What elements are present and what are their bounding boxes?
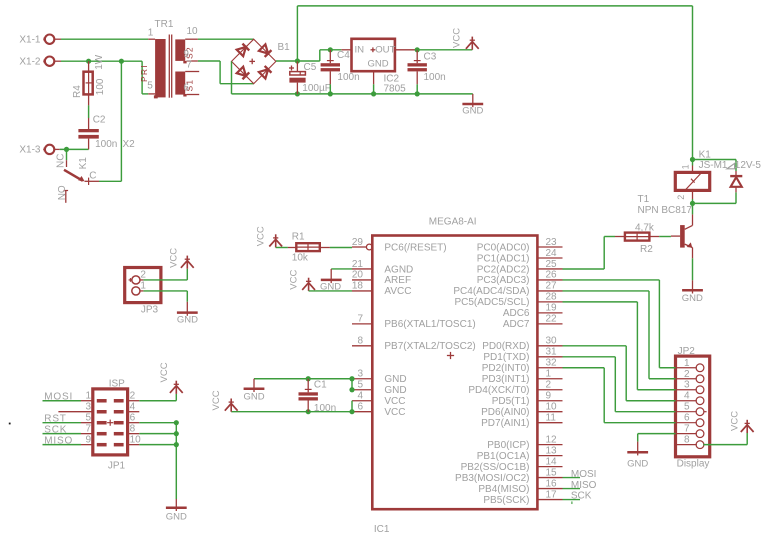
capacitor C2 [78,115,117,151]
svg-text:4: 4 [130,402,136,413]
IC1 pin 24 PC1(ADC1) [477,248,563,265]
JP1 pin 7 stub [81,423,93,434]
svg-text:PD7(AIN1): PD7(AIN1) [481,418,529,429]
pin X1-2 stub [54,60,61,62]
JP1 pin 9 stub [81,434,93,445]
net label MISO wire [43,435,82,446]
svg-text:32: 32 [546,358,558,369]
svg-text:C1: C1 [314,380,327,391]
switch K1 NO pin [57,185,68,203]
svg-text:100n: 100n [314,403,336,414]
svg-text:K1: K1 [699,150,712,161]
svg-text:100n: 100n [424,72,446,83]
sheet origin dot [9,423,11,425]
svg-text:1: 1 [681,164,691,169]
svg-text:NC: NC [55,154,66,168]
JP1 pin 6 stub [128,412,140,423]
svg-text:29: 29 [352,237,364,248]
wire JP1 pin2 to VCC [139,394,176,401]
svg-text:VCC: VCC [384,396,405,407]
svg-text:MEGA8-AI: MEGA8-AI [429,217,477,228]
net label SCK (IC) [563,491,592,504]
svg-text:100n: 100n [95,139,117,150]
svg-text:PB7(XTAL2/TOSC2): PB7(XTAL2/TOSC2) [384,341,475,352]
IC1 pin 8 PB7(XTAL2/TOSC2) [352,336,476,353]
wire X1-2 to TR1 pin5 run [61,61,148,94]
IC1 pin 15 PB3(MOSI/OC2) [455,467,562,484]
JP2 pin 8 [676,435,704,449]
svg-text:VCC: VCC [169,248,180,268]
supply VCC (7805 out) [452,28,479,50]
wire C5 to C4 jog [297,50,341,61]
svg-text:VCC: VCC [159,362,170,382]
wire TR1 pin10 to B1 [198,38,254,40]
svg-text:4: 4 [357,391,363,402]
pin X1-1 stub [54,38,61,40]
wire PD1 to JP2 pin5 [563,357,676,412]
diode D1 top lead [735,171,737,176]
junction pin5 gnd [349,387,354,392]
junction IC2 gnd [371,91,376,96]
capacitor C2 bottom lead [88,139,90,150]
svg-text:GND: GND [384,385,406,396]
svg-text:X1-1: X1-1 [19,34,41,45]
ground GND (T1) [682,280,703,304]
IC1 pin 27 PC4(ADC4/SDA) [453,281,562,298]
svg-text:MISO: MISO [44,435,73,446]
junction JP1 pin6 [174,420,179,425]
IC1 pin 16 PB4(MISO) [478,478,562,495]
regulator IC2 output pin [395,49,417,51]
svg-text:PB3(MOSI/OC2): PB3(MOSI/OC2) [455,473,529,484]
transistor T1 base lead [671,235,680,237]
svg-text:PB0(ICP): PB0(ICP) [487,440,529,451]
svg-text:5: 5 [85,412,91,423]
connector JP1 ISP [93,379,128,472]
svg-text:OUT: OUT [375,44,395,55]
svg-text:GND: GND [243,392,264,403]
TR1 pin 10 [185,26,198,39]
supply VCC (AVCC) [288,270,315,291]
junction C5 bottom [295,91,300,96]
junction relay top [690,157,695,162]
JP3 pin 2 stub [140,279,144,281]
net label MOSI (IC) [563,469,597,480]
svg-text:22: 22 [546,314,558,325]
junction C3 bottom [415,91,420,96]
wire vcc net pins 4-6 [351,401,353,412]
svg-text:1: 1 [140,281,146,292]
svg-text:GND: GND [367,59,388,70]
capacitor C5 bottom lead [296,83,298,94]
svg-text:PB4(MISO): PB4(MISO) [478,484,529,495]
svg-text:AGND: AGND [384,264,413,275]
transformer TR1 primary winding [139,39,166,98]
wire PD2 to JP2 pin6 [563,368,676,423]
IC1 pin 19 ADC6 [503,303,563,320]
capacitor C5 [289,62,330,94]
wire TR1 pin9 to B1 [198,61,254,84]
svg-text:T1: T1 [638,194,650,205]
svg-text:7805: 7805 [384,84,407,95]
TR1 pin 6 [183,83,199,95]
capacitor C1 bottom lead [307,401,309,412]
wire PC5 to JP2 pin3 [563,302,676,390]
svg-text:B1: B1 [278,42,291,53]
transformer TR1 secondary S1 [175,72,194,97]
op IC1 MEGA8 body [372,217,537,535]
svg-text:PD1(TXD): PD1(TXD) [483,352,529,363]
relay K1 coil [675,150,761,191]
svg-text:JP1: JP1 [108,461,126,472]
regulator IC2 gnd pin [373,71,375,84]
junction relay bottom [690,201,695,206]
wire JP1 pin10 to gnd [139,444,176,446]
svg-text:JS-M1: JS-M1 [699,160,728,171]
svg-text:PB1(OC1A): PB1(OC1A) [477,451,530,462]
supply VCC (C1) [211,390,238,411]
svg-text:1: 1 [684,358,690,369]
supply VCC (JP1) [159,362,183,394]
svg-text:6: 6 [684,413,690,424]
IC1 pin 9 PD5(T1) [492,391,563,408]
wire B1 minus to gnd rail [231,61,233,94]
svg-text:PD2(INT0): PD2(INT0) [482,363,530,374]
wire JP2 pin7 to GND [638,434,676,442]
IC1 pin 26 PC3(ADC3) [477,270,563,287]
IC1 pin 4 VCC [352,391,406,408]
resistor R2 [625,222,655,255]
IC1 pin 30 PD0(RXD) [482,336,562,353]
svg-text:C3: C3 [424,52,437,63]
svg-text:2: 2 [546,380,552,391]
svg-text:IC1: IC1 [374,524,390,535]
svg-text:2: 2 [130,391,136,402]
junction C1 top [306,376,311,381]
resistor R1 left lead [288,247,296,249]
svg-text:19: 19 [546,303,558,314]
svg-text:VCC: VCC [384,407,405,418]
svg-text:PC1(ADC1): PC1(ADC1) [477,253,530,264]
capacitor C4 [321,50,360,83]
svg-text:MOSI: MOSI [571,469,597,480]
svg-text:20: 20 [352,270,364,281]
junction JP1 pin10 [174,442,179,447]
resistor R2 left lead [615,236,625,238]
IC1 pin 21 AGND [352,259,413,276]
svg-text:X1-3: X1-3 [19,145,41,156]
IC1 pin 20 AREF [352,270,411,287]
svg-text:SCK: SCK [571,491,592,502]
IC1 pin 11 PD7(AIN1) [481,412,562,429]
connector JP2 Display [676,346,710,470]
svg-text:PB6(XTAL1/TOSC1): PB6(XTAL1/TOSC1) [384,319,475,330]
supply VCC (JP2) [730,411,754,433]
svg-text:PC3(ADC3): PC3(ADC3) [477,275,530,286]
TR1 pin 5 [147,81,155,94]
junction C4 bottom [328,91,333,96]
JP1 pin 8 stub [128,423,140,434]
svg-text:6: 6 [183,83,189,94]
svg-text:MISO: MISO [571,480,597,491]
IC1 pin 32 PD2(INT0) [482,358,563,375]
wire JP3 pin1 to GND [143,291,187,302]
svg-text:C: C [89,171,96,182]
relay value origin glyph [727,163,735,168]
svg-text:1: 1 [546,369,552,380]
svg-text:ADC7: ADC7 [503,319,530,330]
IC1 pin 17 PB5(SCK) [483,489,562,506]
resistor R1 right lead [320,247,330,249]
svg-text:9: 9 [546,391,552,402]
IC1 pin 1 PD3(INT1) [482,369,563,386]
svg-text:NO: NO [57,185,68,200]
svg-text:2: 2 [676,195,686,200]
diode D1 bottom lead [735,187,737,192]
transistor T1 emitter lead [692,248,694,259]
ground GND (AGND) [320,269,342,293]
switch K1 arm [64,157,89,182]
resistor R4 bottom lead [88,94,90,105]
JP1 pin 5 stub [81,412,93,423]
connector JP3 [125,268,161,316]
IC1 pin 22 ADC7 [503,314,563,331]
svg-text:PC5(ADC5/SCL): PC5(ADC5/SCL) [454,297,529,308]
svg-text:12: 12 [546,434,558,445]
net label SCK wire [43,424,82,435]
bridge diode bottom-left [237,67,250,80]
relay K1 coil pin 1 [681,160,693,173]
switch K1 common pin [85,171,99,185]
svg-text:5: 5 [684,402,690,413]
capacitor C1 [299,380,337,414]
bridge diode bottom-right [259,66,272,79]
wire VCC to R1 [276,247,288,249]
capacitor C3 top lead [414,50,421,63]
switch K1 NC pin [55,154,66,168]
resistor R1 [292,231,320,263]
svg-text:PD3(INT1): PD3(INT1) [482,374,530,385]
svg-text:6: 6 [130,412,136,423]
junction pin6 vcc [349,409,354,414]
svg-text:100n: 100n [337,72,359,83]
wire relay to diode top [693,160,737,172]
svg-text:30: 30 [546,336,558,347]
wire PC3 to JP2 pin1 [563,280,676,368]
svg-text:31: 31 [546,347,558,358]
IC1 pin 18 AVCC [352,281,412,298]
svg-text:X2: X2 [123,139,136,150]
connector pad X1-2 [19,56,54,67]
svg-text:8: 8 [684,435,690,446]
svg-text:GND: GND [177,315,198,326]
svg-text:15: 15 [546,467,558,478]
svg-text:PD6(AIN0): PD6(AIN0) [481,407,529,418]
svg-text:VCC: VCC [730,411,741,431]
capacitor C5 top lead [296,61,298,71]
wire JP1 gnd down [175,423,177,499]
svg-text:R1: R1 [292,231,305,242]
svg-text:3: 3 [85,402,91,413]
svg-text:GND: GND [682,293,703,304]
svg-text:10: 10 [130,434,142,445]
regulator IC2 input pin [341,49,351,51]
svg-text:7: 7 [186,60,192,71]
svg-text:NPN BC817: NPN BC817 [638,205,693,216]
JP1 pin 10 stub [128,434,142,445]
JP2 pin 6 [676,413,704,427]
svg-text:100: 100 [95,78,106,95]
junction X1-3/NC [64,147,69,152]
svg-text:16: 16 [546,478,558,489]
svg-text:PC0(ADC0): PC0(ADC0) [477,242,530,253]
svg-text:3: 3 [357,369,363,380]
svg-text:PD0(RXD): PD0(RXD) [482,341,529,352]
svg-text:17: 17 [546,489,558,500]
svg-text:JP2: JP2 [678,346,696,357]
svg-text:VCC: VCC [256,226,267,246]
ground GND (C1) [243,379,264,403]
transformer TR1 core [169,35,171,98]
svg-text:K1: K1 [78,157,89,170]
svg-text:C4: C4 [337,50,350,61]
wire PC4 to JP2 pin2 [563,291,676,379]
JP1 pin 4 stub [128,402,140,413]
wire C3 to gnd rail [416,84,418,94]
wire vcc rail to C1 [231,411,352,413]
transformer TR1 label [155,19,174,30]
IC1 pin 12 PB0(ICP) [487,434,562,451]
resistor R4 top lead [88,61,90,71]
junction C3 top [415,47,420,52]
svg-text:ADC6: ADC6 [503,308,530,319]
net label MISO (IC) [563,480,597,491]
wire JP1 pin8 to gnd [139,433,176,435]
JP3 pin 1 stub [140,290,144,292]
svg-text:C5: C5 [304,62,317,73]
junction C4 top [328,47,333,52]
supply VCC (JP3) [169,248,194,269]
resistor R2 right lead [649,236,659,238]
svg-text:1: 1 [148,27,154,38]
wire gnd net pins 3-5 [351,379,353,390]
svg-text:GND: GND [627,458,648,469]
wire gnd rail to C1 [254,378,352,380]
svg-text:PB5(SCK): PB5(SCK) [483,495,529,506]
svg-text:PC6(/RESET): PC6(/RESET) [384,242,446,253]
svg-text:7: 7 [684,424,690,435]
IC1 pin 6 VCC [352,402,406,419]
JP2 pin 5 [676,402,707,416]
svg-text:JP3: JP3 [141,305,159,316]
IC1 pin 29 PC6(/RESET) [352,237,447,254]
svg-text:5: 5 [357,380,363,391]
wire VCC top run to relay [297,6,692,160]
svg-text:X1-2: X1-2 [19,56,41,67]
svg-text:AVCC: AVCC [384,286,411,297]
junction C5 top [295,58,300,63]
svg-text:PRI: PRI [139,64,149,82]
svg-text:VCC: VCC [288,270,299,290]
svg-text:9: 9 [85,434,91,445]
svg-text:AREF: AREF [384,275,411,286]
svg-text:C2: C2 [93,115,106,126]
ground GND (JP1) [166,499,187,523]
capacitor C2 top lead [88,118,90,129]
svg-text:SCK: SCK [44,424,67,435]
junction C1 bottom [306,409,311,414]
svg-text:23: 23 [546,237,558,248]
TR1 pin 1 [148,27,155,39]
JP2 pin 3 [676,380,704,394]
wire AGND to gnd [331,268,352,270]
svg-text:7: 7 [85,423,91,434]
TR1 pin 7 [185,60,199,72]
transistor T1 collector lead [692,203,694,225]
wire C4 to gnd rail [329,84,331,94]
wire IC2 gnd to rail [373,84,375,94]
JP2 pin 4 [676,391,704,405]
JP2 pin 7 [676,424,704,438]
svg-text:14: 14 [546,456,558,467]
svg-text:24: 24 [546,248,558,259]
resistor R4 [72,54,106,98]
junction X1-2/R4 [86,59,91,64]
switch K1 NC branch wire [66,149,68,160]
wire R4 to C2 [88,105,90,118]
JP2 pin 2 [676,369,704,383]
IC1 pin 5 GND [352,380,407,397]
wire X1-3 to C2 [60,148,89,150]
JP2 pin 1 [676,358,704,372]
svg-text:27: 27 [546,281,558,292]
IC1 pin 7 PB6(XTAL1/TOSC1) [352,314,476,331]
svg-text:GND: GND [384,374,406,385]
IC1 pin 25 PC2(ADC2) [477,259,563,276]
JP1 pin 3 stub [58,402,92,413]
wire B1 plus to C5 [276,60,298,62]
wire JP3 pin2 to VCC [143,269,187,280]
svg-text:1W: 1W [94,54,105,70]
svg-text:PD4(XCK/T0): PD4(XCK/T0) [468,385,529,396]
IC1 pin 23 PC0(ADC0) [477,237,563,254]
TR1 pin 9 [183,49,198,61]
svg-text:28: 28 [546,292,558,303]
svg-text:13: 13 [546,445,558,456]
wire PD0 to JP2 pin4 [563,346,676,401]
svg-text:21: 21 [352,259,364,270]
ground GND (psu) [462,94,483,117]
wire C3 to VCC [417,49,472,51]
svg-text:5: 5 [147,81,153,92]
svg-text:R4: R4 [72,85,83,98]
wire JP2 pin8 to VCC [703,433,747,445]
wire diode bottom to relay [693,192,737,203]
bridge diode top-right [259,44,272,57]
svg-text:10k: 10k [292,253,309,264]
svg-text:MOSI: MOSI [44,392,73,403]
wire JP1 pin6 to gnd [139,422,176,424]
svg-text:100µF: 100µF [302,83,331,94]
wire T1 emitter to gnd [692,258,694,280]
svg-text:10: 10 [546,402,558,413]
connector pad X1-1 [19,34,54,45]
JP1 pin 1 stub [81,391,93,402]
transformer TR1 secondary S2 [175,39,194,63]
IC1 pin 3 GND [352,369,407,386]
svg-text:2: 2 [140,270,146,281]
svg-text:4: 4 [684,391,690,402]
